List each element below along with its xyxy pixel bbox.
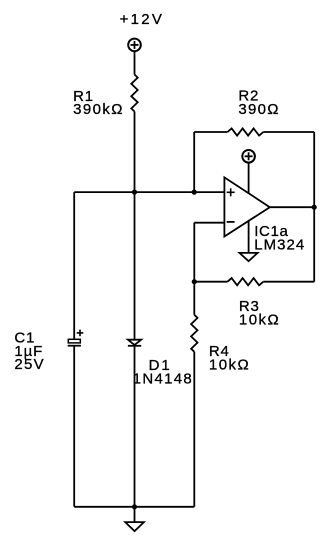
op-amp + input marker: [227, 188, 235, 196]
junction node C: [192, 279, 197, 284]
svg-text:25V: 25V: [14, 356, 43, 373]
wire: R3 left lead: [194, 281, 227, 283]
op-amp ground pin with ground symbol: [240, 221, 258, 262]
resistor R3: [228, 278, 264, 285]
wire: node C down to R4 top: [193, 282, 195, 315]
wire: R3 right lead: [263, 281, 314, 283]
wire: node A down to D1 top: [134, 192, 136, 340]
junction feedback node B: [192, 190, 197, 195]
wire: node A to op-amp + input: [135, 191, 225, 193]
svg-text:10kΩ: 10kΩ: [209, 357, 249, 374]
wire: op-amp output: [270, 206, 314, 208]
op-amp - input marker: [227, 221, 235, 223]
svg-text:390kΩ: 390kΩ: [73, 101, 122, 118]
wire: right vertical output node down to R3: [313, 207, 315, 282]
ground symbol: [125, 507, 144, 531]
power symbol +12V: [128, 39, 141, 52]
junction node A: [132, 190, 137, 195]
wire: C1 branch down from corner to C1 top: [73, 192, 75, 339]
wire: node A left to C1 branch corner: [74, 191, 134, 193]
svg-text:+12V: +12V: [120, 11, 162, 28]
resistor R2: [228, 128, 264, 135]
C1 value label 1µF 25V: [14, 330, 43, 374]
R2 value label 390Ω: [238, 88, 278, 118]
op-amp power pin with + supply circle: [242, 150, 255, 194]
wire: +12V supply to R1 top: [134, 51, 136, 74]
wire: right vertical R2 down to output node: [313, 132, 315, 207]
wire: feedback left vertical (node B up to R2): [193, 132, 195, 192]
R3 value label 10kΩ: [239, 298, 279, 329]
wire: R1 bottom to node A: [134, 112, 136, 193]
op-amp IC1a LM324 label: [254, 223, 304, 254]
op-amp U1 triangle body: [224, 177, 269, 236]
svg-text:1N4148: 1N4148: [133, 370, 192, 387]
diode D1: [128, 340, 141, 346]
wire: R2 left lead: [194, 131, 227, 133]
capacitor C1 (polarized): [68, 330, 84, 346]
junction output node: [312, 205, 317, 210]
wire: R2 right lead to right vertical: [263, 131, 314, 133]
resistor R1: [131, 75, 137, 112]
svg-text:390Ω: 390Ω: [238, 101, 278, 118]
wire: - input corner down to node C: [193, 223, 195, 282]
wire: R4 bottom to ground rail: [193, 352, 195, 507]
svg-text:LM324: LM324: [254, 237, 304, 254]
wire: op-amp - input stub: [194, 222, 224, 224]
D1 value label 1N4148: [133, 357, 192, 387]
resistor R4: [191, 315, 197, 352]
wire: C1 bottom to ground rail: [73, 346, 75, 507]
wire: D1 bottom to ground rail: [134, 346, 136, 507]
svg-text:10kΩ: 10kΩ: [239, 312, 279, 329]
R1 value label 390kΩ: [73, 88, 122, 118]
junction ground node: [132, 504, 137, 509]
wire: ground rail: [74, 506, 194, 508]
R4 value label 10kΩ: [209, 343, 249, 374]
